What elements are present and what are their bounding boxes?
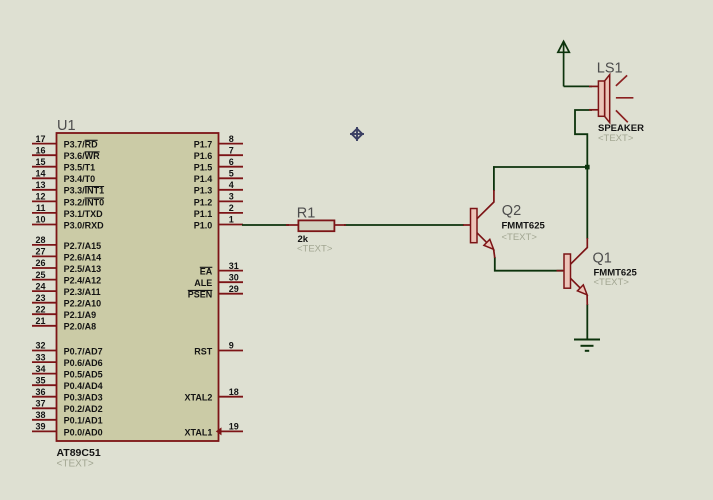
pin 3 (P1.2): [194, 192, 243, 208]
pin 16 (P3.6/WR): [32, 145, 100, 161]
svg-text:38: 38: [36, 410, 46, 420]
svg-text:Q1: Q1: [593, 250, 612, 266]
pin 15 (P3.5/T1): [32, 157, 95, 173]
reference label Q1: [593, 250, 612, 266]
wire Q2 emitter to Q1 base: [495, 257, 563, 271]
svg-text:37: 37: [36, 399, 46, 409]
svg-text:30: 30: [229, 272, 239, 282]
svg-text:PSEN: PSEN: [188, 290, 213, 300]
svg-text:P2.5/A13: P2.5/A13: [64, 264, 102, 274]
svg-text:12: 12: [36, 192, 46, 202]
svg-text:FMMT625: FMMT625: [502, 221, 546, 232]
resistor R1 pins: [286, 224, 346, 226]
svg-text:P2.4/A12: P2.4/A12: [64, 276, 102, 286]
value label AT89C51: [57, 447, 101, 459]
svg-text:R1: R1: [297, 206, 316, 222]
svg-text:<TEXT>: <TEXT>: [297, 244, 333, 255]
svg-text:P0.3/AD3: P0.3/AD3: [64, 393, 103, 403]
svg-text:LS1: LS1: [597, 60, 623, 76]
svg-text:P2.0/A8: P2.0/A8: [64, 322, 97, 332]
value label FMMT625 (Q1): [594, 268, 638, 279]
pin 37 (P0.2/AD2): [32, 399, 103, 415]
ground symbol: [574, 340, 600, 351]
svg-text:P3.7/RD: P3.7/RD: [64, 140, 99, 150]
svg-text:13: 13: [36, 180, 46, 190]
svg-text:P3.2/INT0: P3.2/INT0: [64, 197, 105, 207]
transistor Q2 base bar: [471, 209, 478, 243]
pin 39 (P0.0/AD0): [32, 422, 103, 438]
svg-text:24: 24: [36, 281, 46, 291]
transistor Q1 base bar: [564, 254, 571, 288]
wire junction down to Q1 collector: [586, 167, 588, 239]
pin 38 (P0.1/AD1): [32, 410, 103, 426]
wire junction up to speaker (stepped): [575, 110, 592, 167]
reference label U1: [57, 118, 76, 134]
svg-text:5: 5: [229, 169, 234, 179]
transistor Q1 collector: [571, 238, 588, 264]
svg-text:P1.1: P1.1: [194, 209, 213, 219]
pin 27 (P2.6/A14): [32, 247, 101, 263]
svg-text:EA: EA: [200, 267, 213, 277]
junction node: [585, 165, 590, 170]
wire power to speaker top: [564, 85, 592, 87]
pin 4 (P1.3): [194, 180, 243, 196]
pin 28 (P2.7/A15): [32, 235, 101, 251]
svg-text:RST: RST: [194, 346, 213, 356]
svg-text:27: 27: [36, 247, 46, 257]
pin 26 (P2.5/A13): [32, 258, 101, 274]
svg-text:39: 39: [36, 422, 46, 432]
svg-text:19: 19: [229, 422, 239, 432]
pin 6 (P1.5): [194, 157, 243, 173]
svg-text:P1.3: P1.3: [194, 186, 213, 196]
svg-text:32: 32: [36, 341, 46, 351]
reference label Q2: [502, 203, 521, 219]
U1 TEXT placeholder: [57, 459, 94, 470]
wire Q1 emitter to ground: [586, 304, 588, 340]
pin 11 (P3.1/TXD): [32, 203, 103, 219]
R1 TEXT placeholder: [297, 244, 333, 255]
svg-text:U1: U1: [57, 118, 76, 134]
pin 13 (P3.3/INT1): [32, 180, 104, 196]
pin 25 (P2.4/A12): [32, 270, 101, 286]
svg-text:1: 1: [229, 215, 234, 225]
speaker sound lines: [616, 75, 634, 122]
speaker LS1 pin stubs: [589, 86, 598, 109]
pin 31 (EA): [200, 261, 243, 277]
svg-text:23: 23: [36, 293, 46, 303]
wire R1 to Q2 base: [344, 224, 464, 226]
svg-text:P2.2/A10: P2.2/A10: [64, 299, 102, 309]
svg-text:P1.7: P1.7: [194, 140, 213, 150]
svg-text:<TEXT>: <TEXT>: [594, 277, 630, 288]
pin 14 (P3.4/T0): [32, 169, 95, 185]
svg-text:6: 6: [229, 157, 234, 167]
transistor Q2 base stub: [463, 224, 471, 226]
pin 21 (P2.0/A8): [32, 316, 96, 332]
svg-text:ALE: ALE: [194, 278, 212, 288]
value label SPEAKER: [598, 123, 644, 134]
value label 2k: [298, 234, 309, 245]
IC U1 body (AT89C51): [57, 133, 219, 441]
svg-text:P1.0: P1.0: [194, 220, 213, 230]
svg-text:18: 18: [229, 387, 239, 397]
svg-text:P3.4/T0: P3.4/T0: [64, 174, 96, 184]
pin 7 (P1.6): [194, 145, 243, 161]
svg-text:P2.3/A11: P2.3/A11: [64, 287, 101, 297]
svg-text:11: 11: [36, 203, 46, 213]
svg-text:P2.1/A9: P2.1/A9: [64, 310, 97, 320]
svg-text:21: 21: [36, 316, 46, 326]
svg-text:P3.1/TXD: P3.1/TXD: [64, 209, 104, 219]
pin 32 (P0.7/AD7): [32, 341, 103, 357]
svg-text:P3.6/WR: P3.6/WR: [64, 151, 101, 161]
pin 34 (P0.5/AD5): [32, 364, 103, 380]
svg-text:P3.0/RXD: P3.0/RXD: [64, 220, 105, 230]
svg-text:8: 8: [229, 134, 234, 144]
svg-text:P0.0/AD0: P0.0/AD0: [64, 427, 103, 437]
transistor Q2 collector: [477, 190, 494, 219]
svg-text:22: 22: [36, 304, 46, 314]
svg-text:XTAL1: XTAL1: [185, 427, 213, 437]
pin 22 (P2.1/A9): [32, 304, 96, 320]
svg-text:14: 14: [36, 169, 46, 179]
svg-text:AT89C51: AT89C51: [57, 447, 101, 459]
svg-text:36: 36: [36, 387, 46, 397]
svg-text:P0.4/AD4: P0.4/AD4: [64, 381, 103, 391]
svg-text:31: 31: [229, 261, 239, 271]
svg-text:34: 34: [36, 364, 46, 374]
svg-text:P0.1/AD1: P0.1/AD1: [64, 416, 103, 426]
pin 33 (P0.6/AD6): [32, 352, 103, 368]
Q1 TEXT placeholder: [594, 277, 630, 288]
pin 8 (P1.7): [194, 134, 243, 150]
pin 35 (P0.4/AD4): [32, 375, 103, 391]
transistor Q1 base stub: [557, 270, 565, 272]
svg-text:<TEXT>: <TEXT>: [57, 459, 94, 470]
pin 30 (ALE): [194, 272, 243, 288]
svg-text:P1.4: P1.4: [194, 174, 213, 184]
Q2 TEXT placeholder: [502, 232, 538, 243]
pin 10 (P3.0/RXD): [32, 215, 104, 231]
svg-text:3: 3: [229, 192, 234, 202]
svg-text:XTAL2: XTAL2: [185, 393, 213, 403]
svg-text:P1.6: P1.6: [194, 151, 213, 161]
svg-text:P0.2/AD2: P0.2/AD2: [64, 404, 103, 414]
transistor Q2 emitter with arrow: [477, 233, 495, 258]
svg-text:17: 17: [36, 134, 46, 144]
pin 29 (PSEN): [188, 284, 243, 300]
resistor R1 body: [298, 220, 334, 231]
svg-text:9: 9: [229, 341, 234, 351]
reference label LS1: [597, 60, 623, 76]
pin 24 (P2.3/A11): [32, 281, 101, 297]
svg-text:16: 16: [36, 145, 46, 155]
wire collector rail (Q2 to junction): [493, 166, 588, 168]
svg-text:P0.7/AD7: P0.7/AD7: [64, 346, 103, 356]
pin 5 (P1.4): [194, 169, 243, 185]
origin crosshair marker: [350, 127, 364, 141]
wire P1.0 pin to R1: [242, 224, 289, 226]
svg-text:28: 28: [36, 235, 46, 245]
value label FMMT625 (Q2): [502, 221, 546, 232]
svg-text:25: 25: [36, 270, 46, 280]
svg-text:33: 33: [36, 352, 46, 362]
svg-text:P2.6/A14: P2.6/A14: [64, 252, 102, 262]
svg-text:35: 35: [36, 375, 46, 385]
svg-text:15: 15: [36, 157, 46, 167]
pin 18 (XTAL2): [185, 387, 244, 403]
pin 17 (P3.7/RD): [32, 134, 98, 150]
LS1 TEXT placeholder: [598, 133, 634, 144]
svg-text:P3.5/T1: P3.5/T1: [64, 163, 96, 173]
svg-text:2: 2: [229, 203, 234, 213]
power VCC arrow: [558, 41, 569, 86]
svg-text:26: 26: [36, 258, 46, 268]
svg-text:4: 4: [229, 180, 234, 190]
svg-text:7: 7: [229, 145, 234, 155]
pin 23 (P2.2/A10): [32, 293, 101, 309]
svg-text:P2.7/A15: P2.7/A15: [64, 241, 102, 251]
svg-text:P1.2: P1.2: [194, 197, 213, 207]
svg-text:<TEXT>: <TEXT>: [598, 133, 634, 144]
svg-text:Q2: Q2: [502, 203, 521, 219]
pin 9 (RST): [194, 341, 243, 357]
svg-text:P3.3/INT1: P3.3/INT1: [64, 186, 105, 196]
reference label R1: [297, 206, 316, 222]
pin 36 (P0.3/AD3): [32, 387, 103, 403]
svg-text:P1.5: P1.5: [194, 163, 213, 173]
pin 2 (P1.1): [194, 203, 243, 219]
svg-text:29: 29: [229, 284, 239, 294]
transistor Q1 emitter with arrow: [571, 278, 588, 305]
wire Q2 collector up: [493, 166, 495, 191]
pin 19 (XTAL1): [185, 422, 244, 438]
pin 1 (P1.0): [194, 215, 243, 231]
svg-text:P0.6/AD6: P0.6/AD6: [64, 358, 103, 368]
speaker LS1 body: [598, 75, 609, 123]
svg-text:10: 10: [36, 215, 46, 225]
svg-text:<TEXT>: <TEXT>: [502, 232, 538, 243]
pin 12 (P3.2/INT0): [32, 192, 104, 208]
pin 19 XTAL1 edge arrow: [216, 427, 222, 435]
svg-text:P0.5/AD5: P0.5/AD5: [64, 370, 103, 380]
